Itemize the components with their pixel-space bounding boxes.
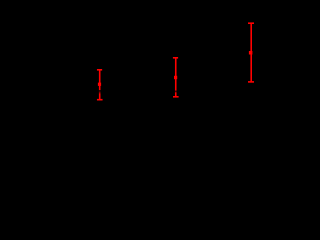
errorbar chart on black background — [0, 0, 313, 195]
error bar 1 square marker — [98, 83, 101, 86]
error bar 3 top cap — [248, 22, 254, 24]
error bar 3 square marker — [249, 51, 253, 55]
error bar 2 bottom cap — [173, 96, 179, 98]
error bar 2 vertical line — [175, 58, 177, 97]
error bar 3 bottom cap — [248, 81, 254, 83]
error bar 3 vertical line — [250, 23, 252, 82]
error bar 1 top cap — [97, 69, 102, 71]
error bar 2 square marker — [174, 76, 177, 79]
error bar 2 top cap — [173, 57, 178, 59]
error bar 1 vertical line — [99, 70, 101, 100]
black overlay gap on bar 1 — [99, 90, 101, 91]
error bar 1 bottom cap — [97, 99, 103, 101]
black overlay gap on bar 2 — [175, 91, 177, 93]
